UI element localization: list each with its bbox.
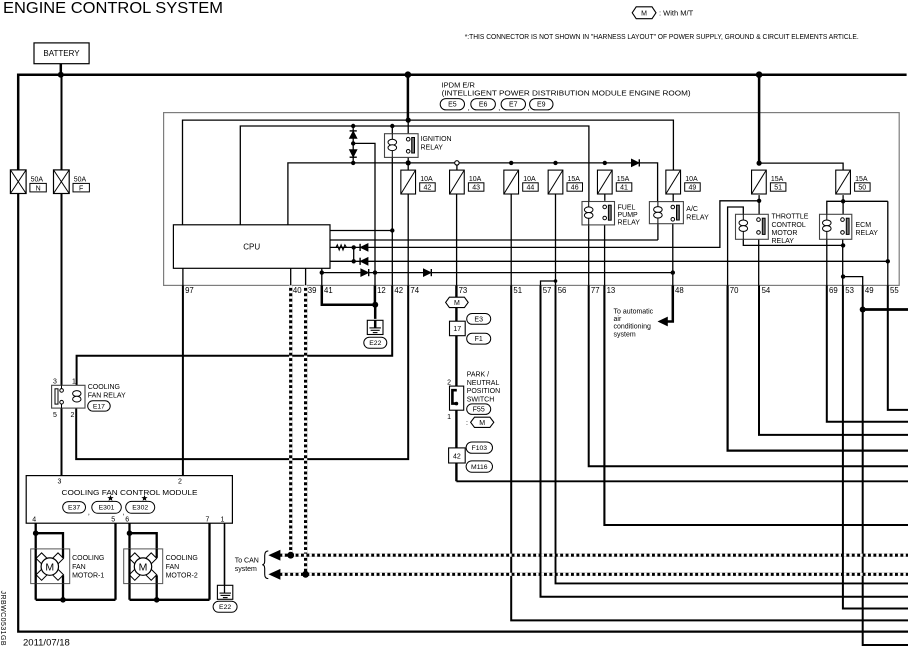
stars [107,495,113,501]
svg-text:6: 6 [125,517,129,524]
svg-text:FAN RELAY: FAN RELAY [88,392,126,399]
wire motor-2 loop [130,533,210,600]
wire throttle contact bottom pin 54 [758,236,760,285]
svg-text:F: F [79,185,83,192]
svg-text:COOLING: COOLING [88,384,120,391]
svg-text:41: 41 [620,185,628,192]
diode left on wire 3 [361,244,368,251]
connector E37 [63,502,86,513]
wire 1 CPU to ignition coil net [330,230,392,232]
svg-text:To automatic: To automatic [614,309,654,316]
wire pin 42 to E17 coil pin 1 [77,285,393,385]
wire thick to right at 307 [863,308,908,311]
connector E5 [440,99,464,110]
wire bus drop to fuses 51/50 [758,75,761,163]
svg-text:46: 46 [571,185,579,192]
fuse 49 (10A) [666,170,681,194]
cooling fan motor 1 [31,549,70,584]
svg-text:: With M/T: : With M/T [659,8,694,17]
svg-text:THROTTLE: THROTTLE [772,214,809,221]
svg-text:,: , [498,105,500,112]
connector F55 [467,404,491,415]
wire net C: CPU top fuse feed line to A/C relay coil [288,163,658,225]
diode D-down (chain) [350,150,357,157]
svg-text:50A: 50A [74,176,87,183]
arrow to automatic a/c [659,317,668,325]
svg-text:A/C: A/C [686,206,698,213]
svg-text:,: , [468,105,470,112]
wire motor-1 stubs over symbol [35,549,37,584]
svg-text:ECM: ECM [856,222,872,229]
wire A/C coil bottom drop [657,224,659,240]
wire pin 69 [827,285,908,421]
wire pin 53 [843,285,908,608]
svg-text:To CAN: To CAN [235,558,259,565]
svg-text:15A: 15A [568,176,581,183]
wire motor-1 loop [36,533,116,600]
svg-text:48: 48 [675,286,684,295]
park/neutral position switch [450,386,464,410]
wire module pin 7 [208,523,210,600]
svg-text:CPU: CPU [243,242,260,251]
svg-text:system: system [614,331,636,338]
connector box 17 [450,321,466,336]
wire pin 54 [759,285,908,435]
svg-text:E17: E17 [93,403,105,410]
svg-text:2: 2 [447,379,451,386]
diode right on fuse feed line [632,159,639,166]
wire pin 49 [863,285,908,645]
wire pin 39 inside [305,268,307,285]
svg-text:,: , [527,105,529,112]
wire battery drop [60,64,63,75]
svg-text:42: 42 [453,453,461,460]
svg-text:RELAY: RELAY [856,230,879,237]
svg-text:JRBWC0531GB: JRBWC0531GB [0,591,6,647]
svg-text:12: 12 [377,286,386,295]
fuse 44 (10A) [504,170,519,194]
svg-text:57: 57 [543,286,552,295]
diode D-up (chain) [350,131,357,138]
svg-text:40: 40 [293,286,302,295]
fuse 51 (15A) [752,170,767,194]
svg-text:E302: E302 [132,505,148,512]
svg-text:FAN: FAN [166,564,180,571]
wire ignition contact bottom through fuse 42 [407,153,409,170]
wire 2 CPU to A/C relay coil bottom [330,239,658,241]
diode right on wire 5 a [361,269,368,276]
svg-text:74: 74 [410,286,419,295]
svg-text:2011/07/18: 2011/07/18 [23,638,70,647]
svg-text:55: 55 [890,286,899,295]
wire ignition contact top [407,120,409,139]
CPU box [173,225,330,268]
wire fuse 41 bottom [604,194,606,201]
svg-text:42: 42 [394,286,403,295]
svg-text:53: 53 [845,286,854,295]
wire diode pair chain [352,126,354,163]
svg-text:air: air [614,316,622,323]
wire fuse 43 bottom pin 73 [456,194,458,285]
wire ECM horizontal to pin 55 [827,201,888,214]
connector M hexagon [446,297,469,307]
wire pin 57 [541,285,908,596]
svg-text:13: 13 [607,286,616,295]
relay ignition [385,134,419,158]
svg-text:BATTERY: BATTERY [43,49,80,58]
svg-text:1: 1 [72,379,76,386]
svg-text:M: M [45,561,54,573]
svg-text:43: 43 [472,185,480,192]
connector M hexagon 2 [471,417,494,427]
svg-text:POSITION: POSITION [467,388,500,395]
svg-text:FAN: FAN [72,564,86,571]
legend M with M/T [632,7,656,19]
svg-text:51: 51 [513,286,522,295]
connector box 42 [449,448,466,463]
connector M116 [466,461,492,472]
wire PNP out to right [456,480,908,482]
svg-text:COOLING: COOLING [166,555,198,562]
connector E7 [501,99,525,110]
svg-text:IGNITION: IGNITION [421,136,452,143]
svg-text:FUEL: FUEL [618,205,636,212]
fusible link N (50A) [10,170,26,194]
svg-text:54: 54 [762,286,771,295]
svg-text:4: 4 [32,517,36,524]
svg-text:5: 5 [53,412,57,419]
svg-text:E22: E22 [369,340,381,347]
ground E22 upper [367,320,383,334]
svg-text:F1: F1 [475,336,483,343]
wire pin 55 [888,285,908,410]
connector E3 [467,314,491,325]
connector E9 [530,99,553,110]
CAN wire pin 39 vertical [304,285,307,574]
CAN arrows [270,551,280,560]
svg-text:COOLING FAN CONTROL MODULE: COOLING FAN CONTROL MODULE [62,488,198,497]
ground E22 lower [217,585,232,599]
relay fuel pump [582,202,615,225]
wire pin 51 [511,285,908,620]
svg-text:15A: 15A [617,176,630,183]
fuse 50 (15A) [836,170,851,194]
wire pin 13 [604,285,908,525]
svg-text:1: 1 [447,414,451,421]
svg-text:M: M [641,10,647,17]
svg-text:41: 41 [324,286,333,295]
svg-text:,: , [88,509,90,516]
svg-text:(INTELLIGENT POWER DISTRIBUTIO: (INTELLIGENT POWER DISTRIBUTION MODULE E… [442,89,692,98]
wire fuse 46 bottom pin 56 with jog to 57 [555,194,557,285]
fuse 46 (15A) [548,170,563,194]
wire A/C contact bottom pin 48 [672,222,674,286]
svg-text:70: 70 [730,286,739,295]
connector F103 [466,442,492,453]
svg-text:RELAY: RELAY [772,238,795,245]
fuse 41 (15A) [597,170,612,194]
svg-text:56: 56 [558,286,567,295]
connector E6 [471,99,496,110]
wire diode mid to pin 12 [353,143,375,285]
wire motor-2 stubs over symbol [128,549,130,584]
wire bus drop to ignition relay [407,75,410,120]
svg-text:SWITCH: SWITCH [467,397,495,404]
connector E302 [126,501,155,513]
wire 5 pin41 diode line to pin 48 net [322,272,673,274]
wire pin 97 to module pin 2 [182,285,184,475]
svg-text:PUMP: PUMP [618,212,639,219]
svg-text:M: M [454,300,460,307]
wire 3 CPU resistor line to fuse 51 bottom [330,201,759,248]
wire ignition coil bottom to pin 42 [391,157,393,285]
wire ignition coil top [391,126,393,134]
svg-text:5: 5 [111,517,115,524]
svg-text:RELAY: RELAY [686,214,709,221]
wire fuse 44 bottom pin 51 [510,194,512,285]
svg-text:,: , [123,509,125,516]
wire pin 41 ground [322,285,375,304]
wire ECM coil bottom pin 69 [826,239,828,285]
diode left on wire 4 [361,258,368,265]
wire pin 48 to A/C arrow [667,285,673,321]
svg-text:CONTROL: CONTROL [772,222,806,229]
wire net A: CPU top-left loop to fuse 49 [183,120,674,225]
svg-text:N: N [36,185,41,192]
wire pin 55 inside [887,201,889,285]
wire module pin 6 [128,523,130,600]
svg-text:97: 97 [185,286,194,295]
svg-text:ENGINE CONTROL SYSTEM: ENGINE CONTROL SYSTEM [3,0,223,17]
CAN-H wire [272,554,908,557]
connector F1 [467,333,491,344]
wire fuse N down + bottom run [18,194,908,632]
svg-text:15A: 15A [771,176,784,183]
brace [262,551,268,579]
wire pin 73 PNP column [455,285,457,481]
svg-text:E37: E37 [68,505,80,512]
svg-text::: : [466,420,468,427]
fuse 43 (10A) [450,170,465,194]
svg-text:50A: 50A [31,176,44,183]
cooling fan control module box [26,476,232,524]
wire fuse 43 top stub [456,165,458,170]
wire 4 CPU to pin 55 net [330,260,888,262]
svg-text:F55: F55 [473,407,485,414]
svg-text:PARK /: PARK / [467,372,489,379]
svg-text:49: 49 [865,286,874,295]
svg-text:E301: E301 [99,505,115,512]
wire fuse 50 bottom to ECM contact [842,195,844,216]
wire pin 77 [589,285,908,466]
svg-text:E22: E22 [219,604,231,611]
svg-text:10A: 10A [685,176,698,183]
wire fuel pump contact bottom pin 13 [604,221,606,285]
svg-text:M116: M116 [471,464,488,471]
svg-text:MOTOR: MOTOR [772,230,798,237]
svg-text:RELAY: RELAY [618,220,641,227]
CAN-L wire [272,573,908,576]
wire pin 56 [556,285,908,583]
svg-text:MOTOR-2: MOTOR-2 [166,573,198,580]
wire throttle coil bottom to ECM contact net [743,239,843,245]
svg-text:44: 44 [527,185,535,192]
battery [34,43,89,64]
svg-text:*:THIS CONNECTOR IS NOT SHOWN: *:THIS CONNECTOR IS NOT SHOWN IN "HARNES… [465,34,859,41]
svg-text:50: 50 [858,185,866,192]
relay throttle control motor [736,214,769,239]
svg-text:E7: E7 [509,102,518,109]
svg-text:1: 1 [221,517,225,524]
CAN wire pin 40 vertical [289,285,292,555]
junction dots [58,72,64,78]
wire pin 70 riser to throttle coil [728,207,744,285]
svg-text:F103: F103 [472,445,488,452]
svg-text:7: 7 [206,517,210,524]
wire E17 pin5 to module pin3 [61,404,63,476]
svg-text:39: 39 [308,286,317,295]
svg-text:17: 17 [453,326,461,333]
fusible link F (50A) [54,170,70,194]
open terminal above fuse 43 [455,161,459,165]
svg-text:3: 3 [58,479,62,486]
wire module pin 1 to ground [224,523,226,585]
svg-text:42: 42 [424,185,432,192]
svg-text:system: system [235,566,257,573]
svg-text:M: M [479,420,485,427]
svg-text:M: M [139,561,148,573]
svg-text:E9: E9 [537,102,546,109]
svg-text:E6: E6 [479,102,488,109]
wire pin 12 ground [374,285,377,319]
svg-text:E3: E3 [474,316,483,323]
wire pin 41 inside [321,268,323,285]
wire pin 70 [728,285,908,450]
svg-text:3: 3 [53,379,57,386]
wire fuse 51-50 top link [759,163,843,171]
wire ECM contact bottom pin 53 [842,236,844,285]
svg-text:conditioning: conditioning [614,324,651,331]
wire fuel pump coil bottom pin 77 [588,225,590,286]
wire pin 40 inside [290,268,292,285]
svg-text:2: 2 [178,479,182,486]
diode right on wire 5 b [424,269,431,276]
svg-text:73: 73 [459,286,468,295]
resistor on wire 3 [336,245,346,250]
wire resistor junction link [353,247,355,261]
wire pin 74 to E17 coil pin 2 [76,285,408,459]
wire fuse 42 bottom pin 74 [407,194,409,285]
svg-text:10A: 10A [420,176,433,183]
svg-text:E5: E5 [448,102,457,109]
svg-text:69: 69 [829,286,838,295]
IPDM E/R box [164,113,900,286]
fuse 42 (10A) [401,170,416,194]
wire net B: CPU top to fuel pump relay coil [240,126,589,225]
svg-text:15A: 15A [855,176,868,183]
svg-text:COOLING: COOLING [72,555,104,562]
wire pin 49 branch [843,277,863,286]
svg-text:RELAY: RELAY [421,144,444,151]
relay A/C [649,202,683,224]
wire fuse 49 bottom [672,194,674,202]
wire module pin 4 [35,523,37,600]
svg-text:77: 77 [591,286,600,295]
wire fuse 51 bottom to throttle contact [758,195,760,216]
wire module pin 5 [114,523,116,600]
battery bus wire [18,75,906,170]
svg-text:NEUTRAL: NEUTRAL [467,380,500,387]
cooling fan motor 2 [124,549,163,584]
connector E301 [92,501,122,513]
svg-text:10A: 10A [469,176,482,183]
svg-text:51: 51 [774,185,782,192]
svg-text:10A: 10A [523,176,536,183]
svg-text:2: 2 [71,412,75,419]
relay cooling fan E17 [52,385,85,408]
wire fuse F down to E17 [61,75,63,170]
svg-text:MOTOR-1: MOTOR-1 [72,573,104,580]
wire pin 97 inside [182,268,184,285]
relay ECM [820,214,852,239]
svg-text:49: 49 [689,185,697,192]
